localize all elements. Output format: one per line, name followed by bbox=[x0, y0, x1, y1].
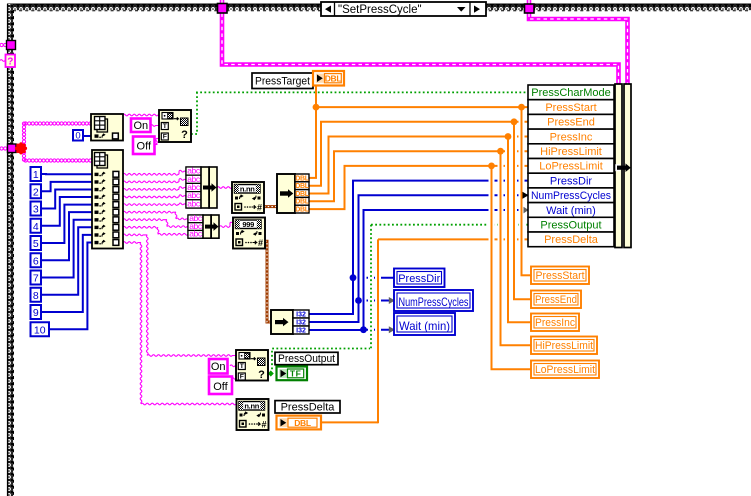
wire ScanString1 to ToDBL node bbox=[264, 205, 277, 208]
node Select 2 bbox=[236, 350, 268, 381]
orange DBL wires: PressTarget + converted values to bundle fields bbox=[309, 85, 528, 209]
indicator NumPressCycles bbox=[394, 290, 473, 311]
node Scan From String n.nn (1) bbox=[232, 182, 264, 213]
indicator Wait (min) bbox=[394, 313, 455, 335]
control terminal DBL PressTarget bbox=[313, 71, 344, 86]
blue vertical risers crossing stubs bbox=[359, 195, 364, 330]
breakpoint red dot on wire bbox=[15, 142, 27, 154]
node Concatenate Strings 2 bbox=[188, 213, 219, 238]
svg-text:HiPressLimit: HiPressLimit bbox=[540, 146, 602, 158]
svg-text:PressCharMode: PressCharMode bbox=[531, 87, 610, 99]
junction dot blue Wait bbox=[360, 326, 367, 333]
chain wire from T2 to index-array nodes bbox=[16, 122, 92, 162]
boolean constant On 2 bbox=[209, 359, 228, 374]
svg-text:abc: abc bbox=[189, 229, 203, 239]
svg-text:PressDelta: PressDelta bbox=[281, 401, 336, 413]
node string-to-DBL x5 bbox=[277, 174, 310, 214]
node Index Array 2 bbox=[92, 150, 123, 249]
svg-text:PressDelta: PressDelta bbox=[544, 234, 599, 246]
svg-text:9: 9 bbox=[33, 307, 39, 319]
svg-text:PressTarget: PressTarget bbox=[255, 75, 310, 87]
string wire Concat1 to ScanString1 bbox=[217, 187, 232, 189]
svg-text:On: On bbox=[133, 120, 148, 132]
orange PressDelta vertical riser bbox=[375, 239, 381, 423]
string wire node1 to Select1 bbox=[123, 114, 159, 116]
indicator PressEnd bbox=[531, 291, 581, 309]
svg-text:PressEnd: PressEnd bbox=[535, 294, 577, 306]
string wire row 10 to ScanString2 bbox=[123, 242, 237, 405]
green dotted vertical riser bbox=[368, 225, 374, 350]
svg-text:0: 0 bbox=[75, 131, 80, 142]
svg-text:F: F bbox=[240, 373, 244, 380]
svg-text:?: ? bbox=[7, 57, 13, 68]
svg-text:#: # bbox=[257, 202, 262, 212]
numeric constants 1-10 bbox=[31, 167, 50, 336]
junction dot blue NumPressCycles bbox=[355, 297, 362, 304]
cluster wire B from tunnel T4 to bundle right strip bbox=[529, 0, 628, 86]
svg-text:PressDir: PressDir bbox=[398, 273, 440, 285]
svg-text:10: 10 bbox=[34, 324, 46, 336]
junction dot orange C bbox=[511, 118, 518, 125]
svg-text:Off: Off bbox=[213, 381, 228, 393]
svg-text:999: 999 bbox=[242, 220, 254, 229]
node Concatenate Strings 1 bbox=[186, 166, 217, 209]
svg-text:Wait (min): Wait (min) bbox=[399, 319, 450, 333]
svg-text:TF: TF bbox=[290, 368, 301, 378]
blue stubs to local indicators bbox=[353, 278, 394, 330]
wire ScanString999 to ToI32 node bbox=[265, 241, 272, 322]
junction dot blue PressDir bbox=[350, 274, 357, 281]
svg-text:#: # bbox=[261, 419, 266, 429]
svg-text:7: 7 bbox=[33, 273, 39, 285]
svg-text:F: F bbox=[163, 133, 167, 140]
node Scan From String 999 bbox=[233, 218, 265, 249]
junction dot orange A bbox=[313, 104, 320, 111]
indicator terminal DBL PressDelta bbox=[277, 416, 322, 430]
node Bundle By Name (11 fields) bbox=[528, 84, 631, 248]
junction dot orange B bbox=[518, 104, 525, 111]
svg-text:HiPressLimit: HiPressLimit bbox=[535, 340, 593, 352]
svg-text:PressInc: PressInc bbox=[550, 131, 593, 143]
svg-text:On: On bbox=[211, 361, 226, 373]
indicator terminal TF PressOutput bbox=[277, 367, 308, 381]
svg-text:n.nn: n.nn bbox=[240, 184, 255, 193]
string wire Off2 to Select2 bbox=[232, 378, 237, 380]
wire boolean dotted: Select1 output to bundle PressCharMode bbox=[191, 92, 528, 134]
svg-text:PressDir: PressDir bbox=[550, 175, 593, 187]
svg-text:PressInc: PressInc bbox=[535, 317, 575, 329]
case selector ? terminal on left border bbox=[0, 55, 15, 68]
svg-text:3: 3 bbox=[33, 204, 39, 216]
boolean constant Off 2 bbox=[209, 377, 232, 395]
svg-text:Off: Off bbox=[137, 141, 152, 153]
cluster wire A from tunnel T3 to bundle left strip bbox=[222, 0, 619, 86]
svg-text:DBL: DBL bbox=[295, 207, 310, 214]
svg-text:n.nn: n.nn bbox=[244, 401, 259, 410]
blue wires constants 1-10 to index array bbox=[41, 174, 92, 329]
node Scan From String n.nn (2) bbox=[237, 399, 269, 430]
string wire Concat2 to ScanString999 bbox=[220, 222, 234, 227]
svg-text:5: 5 bbox=[33, 238, 39, 250]
svg-text:4: 4 bbox=[33, 221, 39, 233]
string wire Off1 to Select1 bbox=[155, 139, 160, 145]
svg-text:NumPressCycles: NumPressCycles bbox=[531, 190, 611, 202]
wire boolean dotted: TF net to bundle PressOutput bbox=[268, 225, 528, 374]
blue wire constant 0 to index array node1 bbox=[83, 135, 92, 137]
svg-text:LoPressLimit: LoPressLimit bbox=[539, 161, 603, 173]
boolean constant Off 1 bbox=[133, 137, 155, 155]
tunnel T3 on top border bbox=[218, 4, 228, 14]
case structure selector label "SetPressCycle" bbox=[321, 2, 486, 16]
numeric constant 0 bbox=[73, 130, 83, 142]
svg-text:#: # bbox=[258, 238, 263, 248]
junction dot orange E bbox=[497, 148, 504, 155]
tunnel T2 on left border (string cluster in) bbox=[0, 144, 16, 153]
string wire On1 to Select1 bbox=[151, 125, 160, 127]
svg-text:"SetPressCycle": "SetPressCycle" bbox=[338, 4, 422, 16]
node string-to-I32 x3 bbox=[271, 310, 309, 335]
coercion dot green diamond bbox=[267, 370, 274, 377]
svg-text:I32: I32 bbox=[296, 328, 306, 335]
svg-text:LoPressLimit: LoPressLimit bbox=[535, 364, 595, 376]
gray entry arrows on indicators bbox=[389, 192, 529, 333]
svg-text:DBL: DBL bbox=[294, 418, 311, 428]
svg-text:abc: abc bbox=[187, 198, 201, 208]
tunnel T4 on top border bbox=[525, 4, 535, 13]
indicator PressStart bbox=[531, 267, 589, 285]
orange drop wires to PressStart..LoPressLimit indicators bbox=[491, 107, 532, 369]
svg-text:PressOutput: PressOutput bbox=[540, 220, 601, 232]
tunnel T1 on left border (cluster in) bbox=[0, 41, 16, 50]
label PressDelta bbox=[275, 401, 340, 414]
while-loop border top strip bbox=[7, 4, 751, 11]
indicator LoPressLimit bbox=[531, 361, 599, 379]
svg-text:2: 2 bbox=[33, 186, 39, 198]
indicator PressDir bbox=[394, 269, 445, 288]
svg-text:PressEnd: PressEnd bbox=[547, 117, 595, 129]
svg-text:Wait (min): Wait (min) bbox=[546, 205, 596, 217]
string wires rows 6-8 to Concat2 bbox=[123, 211, 188, 235]
junction dot orange D bbox=[505, 133, 512, 140]
label PressOutput bbox=[275, 352, 338, 365]
node Index Array 1 bbox=[91, 114, 123, 141]
svg-text:?: ? bbox=[181, 129, 188, 141]
svg-text:1: 1 bbox=[33, 169, 39, 181]
blue I32 wires from conversion node to bundle bbox=[309, 181, 528, 330]
junction dot orange F bbox=[488, 163, 495, 170]
orange wire: PressDelta to bundle bbox=[321, 239, 528, 422]
label PressTarget bbox=[252, 73, 313, 89]
indicator HiPressLimit bbox=[531, 337, 597, 355]
boolean constant On 1 bbox=[131, 119, 151, 133]
svg-text:PressOutput: PressOutput bbox=[278, 353, 335, 365]
svg-text:DBL: DBL bbox=[325, 73, 342, 83]
svg-text:PressStart: PressStart bbox=[536, 270, 585, 282]
while-loop border left strip bbox=[7, 4, 14, 496]
string wire On2 to Select2 bbox=[230, 365, 236, 367]
svg-text:6: 6 bbox=[33, 255, 39, 267]
svg-text:PressStart: PressStart bbox=[545, 102, 596, 114]
svg-text:8: 8 bbox=[33, 290, 39, 302]
string wire row 9 to Select2 bbox=[123, 234, 236, 356]
string wires index-array rows 1-5 to Concat1 bbox=[123, 170, 186, 205]
svg-text:?: ? bbox=[258, 369, 265, 381]
node Select 1 bbox=[159, 110, 191, 142]
svg-text:NumPressCycles: NumPressCycles bbox=[399, 295, 469, 309]
indicator PressInc bbox=[531, 314, 579, 332]
